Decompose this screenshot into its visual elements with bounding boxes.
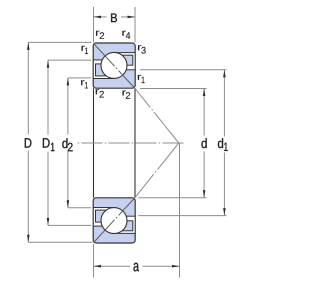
label r2 top-left — [96, 31, 104, 39]
outer ring shoulder line left (bottom section) — [93, 225, 103, 227]
label B — [111, 14, 117, 23]
d2 extension line bottom — [68, 207, 91, 209]
D1 dimension line — [47, 60, 49, 134]
inner ring shoulder line left (top section) — [93, 78, 113, 80]
d extension line top — [140, 88, 207, 90]
contact angle line through bottom ball — [94, 198, 134, 242]
D extension line top — [28, 41, 91, 43]
d1 arrow top — [223, 70, 226, 78]
outer ring shoulder line right (top section) — [116, 52, 136, 54]
bearing left face line — [93, 88, 95, 198]
label r4 top-right — [122, 31, 130, 39]
apex vertical line — [179, 143, 181, 278]
label d — [202, 138, 207, 148]
bearing body (bottom section) — [93, 198, 135, 243]
B extension line right — [134, 7, 136, 43]
ball (bottom section) — [101, 208, 127, 234]
label D — [25, 138, 32, 147]
label r1 left-lower — [81, 80, 88, 88]
white gap between rings (bottom section) — [94, 208, 135, 234]
D1 extension line bottom — [48, 224, 91, 226]
d1 extension line bottom — [138, 215, 226, 217]
a arrow left — [94, 265, 102, 268]
d2 dimension line — [67, 78, 69, 135]
d2 extension line top — [68, 77, 91, 79]
d2 arrow bottom — [67, 200, 70, 208]
d2 arrow top — [67, 78, 70, 86]
a extension line left — [93, 244, 95, 278]
a dimension line — [94, 265, 131, 267]
label r2 below-left — [96, 89, 104, 97]
label a — [134, 263, 140, 272]
d extension line bottom — [138, 197, 206, 199]
label r3 right — [138, 45, 146, 53]
contact line extension top to apex — [135, 89, 179, 143]
D1 extension line top — [48, 59, 91, 61]
label D1 — [43, 138, 55, 151]
D extension line bottom — [28, 241, 92, 243]
d arrow bottom — [203, 190, 206, 198]
bearing right face line — [134, 88, 136, 198]
D1 arrow bottom — [47, 218, 50, 226]
label r1 right-mid — [138, 75, 145, 83]
a arrow right — [172, 265, 180, 268]
outer ring shoulder line right (bottom section) — [116, 232, 136, 234]
B arrow right — [128, 16, 136, 19]
bearing axis centerline — [78, 142, 184, 144]
B arrow left — [94, 16, 102, 19]
B dimension line — [94, 16, 107, 18]
bearing body (outer+inner rings, top section) — [93, 43, 135, 88]
label d1 — [218, 138, 228, 151]
ball (top section) — [101, 52, 127, 78]
outer ring shoulder line left (top section) — [93, 59, 103, 61]
d arrow top — [203, 89, 206, 97]
D arrow top — [27, 42, 30, 50]
cage right (bottom section) — [114, 221, 133, 231]
d1 extension line top — [140, 69, 227, 71]
D dimension line — [27, 42, 29, 134]
contact line extension bottom from apex — [135, 143, 179, 197]
d1 dimension line — [223, 70, 225, 137]
d1 arrow bottom — [223, 208, 226, 216]
cage left (bottom section) — [96, 210, 114, 222]
D1 arrow top — [47, 60, 50, 68]
inner ring shoulder line right (top section) — [126, 69, 135, 71]
label r1 left-top — [82, 46, 89, 54]
inner ring shoulder line right (bottom section) — [126, 215, 135, 217]
D arrow bottom — [27, 235, 30, 243]
cage right (top section) — [114, 55, 133, 65]
white gap between rings (top section) — [94, 53, 135, 79]
B extension line left — [93, 7, 95, 43]
d dimension line — [203, 89, 205, 136]
inner ring shoulder line left (bottom section) — [93, 207, 113, 209]
label r2 below-right — [123, 90, 131, 98]
contact angle line through top ball — [94, 44, 134, 88]
label d2 — [62, 138, 72, 151]
cage left (top section) — [96, 64, 114, 76]
